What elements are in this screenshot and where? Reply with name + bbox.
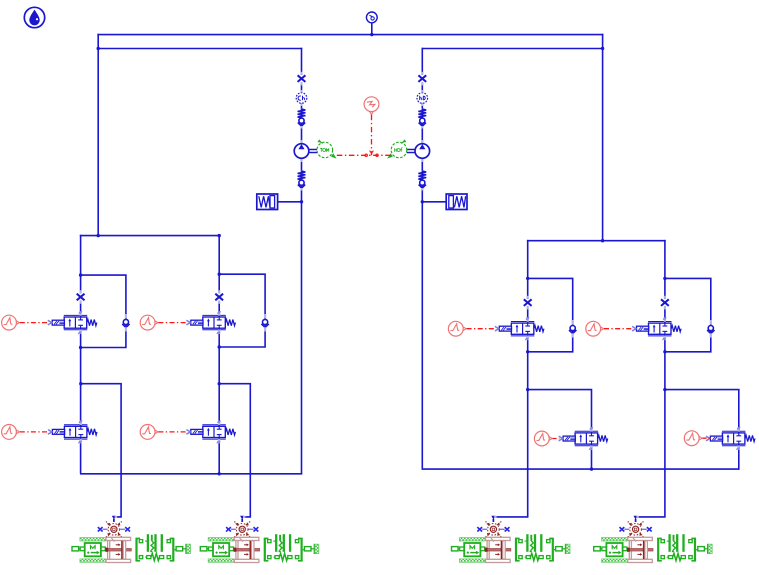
- valve V1: [48, 311, 97, 334]
- source S5: [448, 321, 466, 336]
- anchor W2: [303, 544, 319, 554]
- signal wire S3: [20, 431, 49, 433]
- wire V2 bypass: [219, 274, 265, 347]
- check valve CV-L1: [298, 109, 306, 129]
- node B-right: [601, 47, 604, 50]
- valve V3: [48, 421, 97, 444]
- pump P2: [387, 139, 429, 162]
- wire right drop: [602, 34, 604, 241]
- pump P1: [294, 139, 336, 162]
- wire V1 bypass: [81, 275, 126, 347]
- node V5 bypass top: [526, 277, 529, 280]
- wire valve V5 main: [493, 240, 527, 517]
- plug X RL1 right: [120, 527, 130, 531]
- wire right pump column: [421, 48, 423, 469]
- plug X RL3 right: [500, 527, 510, 531]
- mass M2: [200, 538, 234, 563]
- node V1 bypass bottom: [79, 346, 82, 349]
- mass M4: [594, 538, 627, 563]
- fluid properties icon: [24, 7, 44, 27]
- node V3 branch: [79, 382, 82, 385]
- feed pin load 3: [491, 516, 496, 522]
- wire accumulator A1 link: [278, 201, 302, 203]
- plug X RL3 left: [477, 527, 487, 531]
- signal wire S7: [553, 438, 560, 440]
- signal junction: [365, 151, 378, 157]
- spring-damper SD1: [136, 534, 175, 561]
- node V4 branch: [218, 382, 221, 385]
- feed pin load 1: [112, 516, 117, 522]
- wire valve V1 main: [80, 235, 82, 474]
- rotary load RL2: [234, 521, 250, 537]
- wire V7 branch: [528, 390, 592, 470]
- plug X V6: [660, 296, 669, 310]
- wire A top manifold: [97, 34, 603, 36]
- wire right bottom manifold: [422, 468, 739, 470]
- mass M3: [452, 538, 486, 563]
- node V2 bypass bottom: [218, 345, 221, 348]
- wire right sub top: [527, 240, 666, 242]
- check valve CV1: [122, 314, 129, 332]
- plug X V1: [76, 290, 85, 304]
- wire V6 bypass: [665, 278, 711, 351]
- signal wire S0 horizontal: [337, 154, 391, 156]
- check valve CV-R1: [418, 109, 426, 129]
- source S1: [2, 315, 20, 330]
- rotary load RL4: [628, 521, 644, 537]
- node V7 bottom: [590, 467, 593, 470]
- node B-left: [97, 47, 100, 50]
- anchor W4: [696, 544, 712, 554]
- spring-damper SD2: [264, 534, 303, 561]
- wire B left suction: [98, 48, 302, 50]
- source S7: [534, 431, 552, 446]
- signal wire S1: [20, 322, 49, 324]
- node A2: [421, 200, 424, 203]
- node V5 bypass bottom: [526, 350, 529, 353]
- wire left sub top: [80, 235, 219, 237]
- anchor W3: [554, 544, 570, 554]
- wire accumulator A2 link: [422, 201, 446, 203]
- piston C2: [234, 537, 260, 562]
- plug X V2: [215, 290, 224, 304]
- wire left pump column: [301, 48, 303, 474]
- source S8: [684, 431, 702, 446]
- signal wire S2: [158, 322, 187, 324]
- source S4: [140, 425, 158, 440]
- plug X RL1 left: [98, 527, 108, 531]
- node V2 bypass top: [218, 273, 221, 276]
- wire valve V2 main: [218, 235, 220, 474]
- signal wire S6: [604, 328, 633, 330]
- spring-damper SD3: [515, 534, 554, 561]
- mass M1: [72, 538, 106, 563]
- check valve CV-L2: [298, 171, 306, 191]
- plug X V5: [523, 296, 532, 310]
- signal source S0: [364, 97, 379, 115]
- node V7 branch: [526, 388, 529, 391]
- valve V6: [632, 317, 681, 340]
- signal wire S8: [703, 437, 711, 439]
- signal wire S0 vertical: [371, 115, 373, 156]
- anchor W1: [174, 544, 190, 554]
- signal wire S5: [467, 328, 496, 330]
- piston C3: [485, 537, 511, 562]
- plug X RL2 left: [226, 527, 236, 531]
- piston C4: [627, 537, 653, 562]
- check valve CV-R2: [418, 171, 426, 191]
- plug X right pump line: [418, 72, 427, 86]
- node right-top-T: [601, 239, 604, 242]
- spring-damper SD4: [657, 534, 696, 561]
- wire tank stub: [371, 23, 373, 35]
- node V6 bypass bottom: [663, 350, 666, 353]
- rotary load RL1: [106, 521, 122, 537]
- accumulator A1: [257, 194, 278, 210]
- node left-top-T: [97, 234, 100, 237]
- wire left drop: [97, 34, 99, 236]
- piston C1: [105, 537, 131, 562]
- source S2: [140, 315, 158, 330]
- wire V4 branch: [219, 384, 250, 517]
- feed pin load 4: [634, 516, 639, 522]
- node V4 bottom: [218, 472, 221, 475]
- signal wire S4: [158, 431, 187, 433]
- source S6: [586, 321, 604, 336]
- wire V3 branch: [81, 384, 121, 517]
- check valve CV2: [261, 314, 268, 332]
- valve V2: [186, 311, 235, 334]
- sensor Ch left: [296, 90, 307, 106]
- plug X RL2 right: [249, 527, 259, 531]
- node V1 bypass top: [79, 273, 82, 276]
- node tank junction: [370, 33, 373, 36]
- sensor hD right: [417, 90, 428, 106]
- node A1: [300, 200, 303, 203]
- node left-top-corner: [218, 234, 221, 237]
- wire V8 branch: [665, 390, 739, 470]
- feed pin load 2: [240, 516, 245, 522]
- wire left bottom manifold: [80, 473, 302, 475]
- wire V5 bypass: [528, 278, 573, 351]
- wire B right suction: [422, 48, 603, 50]
- check valve CV6: [707, 320, 714, 338]
- valve V7: [559, 427, 608, 450]
- valve V4: [186, 421, 235, 444]
- check valve CV5: [569, 320, 576, 338]
- accumulator A2: [446, 194, 467, 210]
- valve V5: [495, 317, 544, 340]
- plug X RL4 right: [642, 527, 652, 531]
- wire valve V6 main: [636, 240, 665, 517]
- node V8 branch: [663, 388, 666, 391]
- tank T1: [366, 12, 377, 23]
- plug X left pump line: [297, 72, 306, 86]
- rotary load RL3: [485, 521, 501, 537]
- valve V8: [706, 427, 755, 450]
- plug X RL4 left: [620, 527, 630, 531]
- source S3: [2, 425, 20, 440]
- node V6 bypass top: [663, 277, 666, 280]
